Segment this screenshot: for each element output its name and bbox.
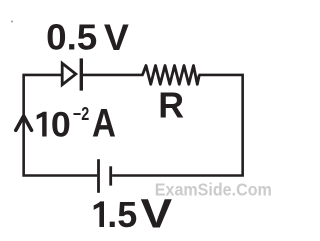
diode D1 [62, 58, 81, 90]
resistor R zigzag [143, 66, 200, 85]
battery B1 (1.5 V cell) [99, 159, 111, 193]
label: 1.5 V (battery voltage) [94, 191, 173, 236]
wire: resistor to top-right corner, right side, bottom-right segment [112, 75, 243, 176]
wire: top-left corner, left side and bottom-left segment [24, 75, 98, 176]
svg-text:−2: −2 [73, 104, 89, 124]
svg-text:0: 0 [51, 105, 71, 145]
svg-text:0.5: 0.5 [46, 17, 97, 58]
stray dot artifact [11, 21, 13, 23]
wire: diode cathode to resistor [82, 74, 144, 77]
svg-text:R: R [158, 84, 184, 125]
svg-text:ExamSide.Com: ExamSide.Com [155, 179, 272, 199]
svg-text:A: A [92, 101, 116, 145]
current arrow (upwards) [16, 116, 32, 130]
label: 10^-2 A current value [37, 101, 116, 145]
svg-text:V: V [104, 16, 129, 58]
svg-text:.5: .5 [107, 194, 137, 235]
